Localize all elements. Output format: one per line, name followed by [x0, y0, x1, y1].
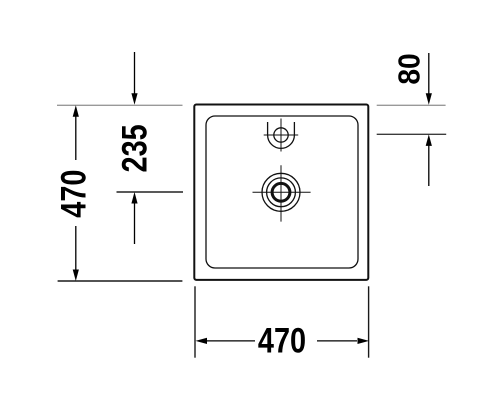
svg-text:235: 235 [115, 124, 154, 172]
svg-text:80: 80 [392, 53, 427, 84]
svg-text:470: 470 [258, 321, 306, 360]
svg-text:470: 470 [54, 170, 93, 218]
